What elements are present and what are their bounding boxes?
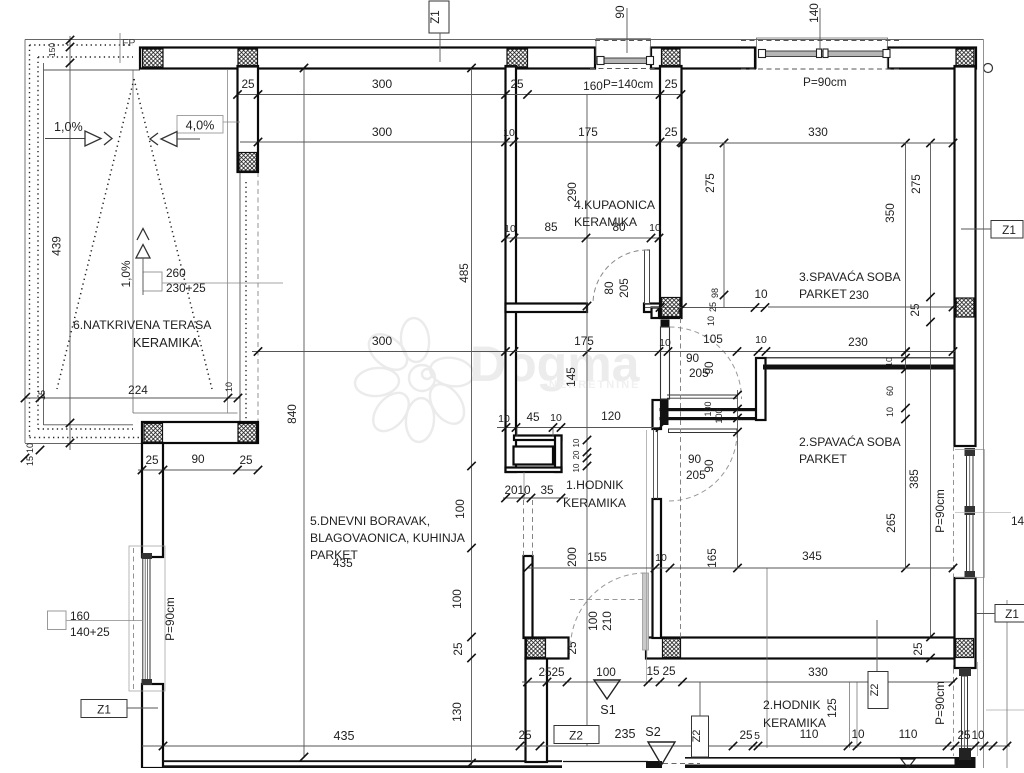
svg-text:90: 90	[688, 452, 702, 466]
entry wall left	[526, 638, 569, 659]
roof overhang line	[25, 39, 984, 41]
dimension ticks	[901, 139, 909, 147]
window W1 dashed top	[595, 40, 651, 42]
svg-text:300: 300	[372, 125, 393, 139]
symbol box terrace	[143, 272, 162, 291]
hatch entry wall mid	[663, 639, 681, 658]
dim extension bedroom2 west	[766, 568, 768, 748]
svg-text:25: 25	[708, 302, 718, 312]
terrace outer edge left	[24, 40, 26, 444]
window W5 top block	[959, 668, 971, 676]
niche top bar	[514, 436, 562, 441]
svg-text:1,0%: 1,0%	[54, 120, 83, 134]
svg-text:2.SPAVAĆA SOBA: 2.SPAVAĆA SOBA	[799, 434, 901, 449]
door bedroom2 swing arc	[669, 433, 738, 502]
svg-text:P=90cm: P=90cm	[933, 681, 947, 725]
dimension ticks	[300, 64, 308, 72]
svg-text:85: 85	[544, 220, 558, 234]
label box Z1 right	[991, 221, 1023, 239]
svg-text:200: 200	[565, 547, 579, 567]
door entry leaf	[643, 573, 649, 650]
svg-text:Z1: Z1	[1005, 607, 1019, 621]
svg-text:435: 435	[333, 729, 354, 743]
dimension ticks	[159, 742, 167, 750]
svg-text:PARKET: PARKET	[799, 287, 847, 301]
niche slot edge 2	[552, 428, 554, 436]
wardrobe front lines	[667, 394, 738, 396]
svg-text:KERAMIKA: KERAMIKA	[133, 335, 200, 350]
dim line 10/175/25	[240, 141, 682, 143]
svg-text:4,0%: 4,0%	[186, 119, 215, 133]
dim extension bedroom 350/265	[905, 143, 907, 568]
dim line 25/25//15/25/330	[522, 681, 955, 683]
svg-text:25: 25	[565, 641, 579, 655]
svg-text:15: 15	[37, 390, 47, 400]
hatch west corner left	[144, 424, 163, 443]
dim line terrace 224	[25, 397, 240, 399]
svg-text:125: 125	[825, 698, 839, 718]
svg-text:10: 10	[25, 443, 35, 453]
dim line niche 10/45/10/120	[497, 427, 660, 429]
svg-text:235: 235	[614, 727, 635, 741]
svg-text:10: 10	[572, 463, 581, 472]
slope arrow terrace center	[137, 229, 149, 241]
exterior wall right upper	[955, 66, 976, 446]
dim line 155/10/345	[527, 567, 955, 569]
svg-text:435: 435	[333, 556, 353, 570]
exterior wall top-right	[888, 48, 976, 69]
svg-text:130: 130	[450, 702, 464, 722]
dimension ticks	[656, 303, 664, 311]
exterior wall right middle	[955, 578, 976, 668]
svg-text:150: 150	[47, 43, 57, 57]
svg-text:P=90cm: P=90cm	[803, 75, 847, 89]
svg-text:3.SPAVAĆA SOBA: 3.SPAVAĆA SOBA	[799, 269, 901, 284]
door bedroom3 swing arc	[670, 327, 742, 399]
svg-text:25: 25	[451, 642, 465, 656]
hatch top wall left end	[143, 49, 164, 67]
hatch pillar top	[238, 49, 258, 67]
terrace dotted bottom 1	[30, 437, 143, 439]
svg-text:10: 10	[572, 438, 581, 447]
window W4 handle block	[965, 506, 976, 515]
svg-text:10: 10	[504, 223, 516, 235]
svg-text:100: 100	[596, 665, 616, 679]
watermark logo flower	[354, 317, 476, 443]
label box Z2 hall	[554, 726, 599, 744]
svg-text:105: 105	[703, 332, 723, 346]
entry / bedroom2 south wall	[646, 638, 955, 659]
svg-text:25: 25	[518, 728, 532, 742]
wall living/bathroom	[506, 66, 517, 472]
window W2 centerline	[819, 8, 821, 50]
dimension ticks	[523, 678, 531, 686]
dim extension 485-chain	[471, 68, 473, 765]
wardrobe wall upper	[660, 408, 759, 411]
dim line mid 300/175/10/105/10/230	[252, 351, 955, 353]
slope arrow right 4,0%	[177, 116, 223, 134]
window W5 bottom block	[959, 748, 971, 760]
window W5 dashed	[953, 660, 955, 756]
svg-text:2.HODNIK: 2.HODNIK	[763, 698, 821, 712]
bathroom south wall stub	[644, 304, 660, 313]
window W3 top block	[142, 553, 153, 559]
svg-text:Z1: Z1	[97, 703, 111, 717]
svg-text:1.HODNIK: 1.HODNIK	[566, 478, 624, 492]
svg-text:BLAGOVAONICA, KUHINJA: BLAGOVAONICA, KUHINJA	[310, 531, 466, 545]
projection dashed bedroom wall face	[680, 318, 682, 638]
svg-text:485: 485	[457, 263, 471, 283]
window W3 dashed	[133, 548, 135, 690]
window W1 top P=140	[596, 38, 651, 40]
svg-text:60: 60	[885, 386, 895, 396]
dim extension bedroom 275/385	[930, 143, 932, 637]
dimension ticks	[21, 454, 29, 462]
svg-text:25: 25	[739, 728, 753, 742]
dimension ticks	[66, 36, 74, 44]
bottom wall blob	[646, 761, 662, 768]
window W2 dashed top	[741, 40, 902, 42]
svg-text:6.NATKRIVENA TERASA: 6.NATKRIVENA TERASA	[73, 318, 212, 332]
dimension ticks	[583, 302, 591, 310]
svg-text:10: 10	[550, 412, 562, 424]
exterior wall right bottom piece	[955, 757, 976, 768]
door bedroom3 leaf	[661, 327, 670, 399]
door frame stub bathroom	[661, 320, 670, 328]
svg-text:10: 10	[971, 728, 985, 742]
label box Z1 left	[81, 700, 127, 718]
svg-text:45: 45	[526, 410, 540, 424]
svg-text:90: 90	[702, 361, 716, 375]
exterior boundary right lower	[1006, 600, 1008, 768]
svg-text:25: 25	[538, 665, 552, 679]
svg-text:25: 25	[510, 77, 524, 91]
svg-text:265: 265	[884, 513, 898, 533]
niche bottom bar	[506, 468, 562, 473]
svg-text:300: 300	[372, 334, 393, 348]
svg-text:Z1: Z1	[430, 10, 442, 23]
dim extension wardrobe	[737, 390, 739, 568]
svg-text:25: 25	[241, 77, 255, 91]
svg-text:KERAMIKA: KERAMIKA	[763, 716, 827, 730]
svg-text:100: 100	[450, 589, 464, 609]
svg-text:175: 175	[578, 125, 598, 139]
svg-text:330: 330	[808, 665, 828, 679]
svg-text:140: 140	[1011, 514, 1024, 528]
svg-text:330: 330	[808, 125, 828, 139]
door bedroom2 leaf	[669, 429, 738, 433]
svg-text:385: 385	[907, 469, 921, 489]
svg-text:P=140cm: P=140cm	[603, 77, 653, 91]
terrace inner edge bottom	[44, 424, 134, 426]
hatch entry wall right	[956, 639, 974, 658]
wall kitchen vertical	[526, 658, 548, 762]
lintel dashed entry	[570, 599, 646, 601]
svg-text:25: 25	[551, 665, 565, 679]
svg-text:10: 10	[659, 337, 671, 349]
svg-text:10: 10	[498, 413, 510, 425]
pillar terrace/living	[238, 66, 259, 172]
dim extension corridor 2	[849, 682, 851, 748]
window W4 top block	[965, 448, 976, 456]
terrace edge at house	[227, 70, 229, 413]
svg-text:90: 90	[191, 452, 205, 466]
downpipe circle	[984, 64, 993, 73]
svg-text:120: 120	[601, 409, 621, 423]
wall gap dashed	[663, 763, 700, 765]
window W2 sill dashed	[741, 68, 902, 70]
niche right bar	[555, 436, 562, 473]
svg-text:25: 25	[908, 303, 922, 317]
label box Z2 corridor vertical	[692, 716, 709, 757]
window W4 bottom block	[965, 571, 976, 579]
svg-text:140: 140	[807, 3, 821, 23]
window W3 bottom block	[142, 679, 153, 685]
dim line bedroom3 330	[682, 142, 953, 144]
wall living south-west horizontal	[142, 422, 258, 443]
svg-text:25: 25	[957, 728, 971, 742]
terrace dotted left 2	[37, 57, 39, 429]
svg-text:160: 160	[70, 609, 90, 623]
hatch bathroom wall top	[507, 49, 528, 67]
svg-text:260: 260	[166, 266, 186, 280]
dim line bathroom 10/85/80/10	[505, 237, 660, 239]
exterior wall top-middle	[651, 48, 755, 69]
opening line	[239, 172, 241, 422]
niche extension	[523, 472, 525, 500]
svg-text:Z1: Z1	[1002, 223, 1016, 237]
svg-text:5.DNEVNI BORAVAK,: 5.DNEVNI BORAVAK,	[310, 514, 430, 528]
window W2 top P=90	[756, 37, 888, 39]
window W3 left wall P=90	[129, 546, 165, 691]
projection dashed hall 1	[523, 500, 525, 556]
svg-text:25: 25	[664, 77, 678, 91]
dim line top 25/300/25/160/25	[237, 94, 682, 96]
dimension ticks	[502, 423, 510, 431]
svg-text:25: 25	[239, 453, 253, 467]
svg-text:1,0%: 1,0%	[119, 260, 133, 287]
svg-text:275: 275	[909, 174, 923, 194]
terrace paving edge lower	[133, 412, 238, 414]
bathroom south wall	[506, 304, 588, 313]
svg-text:210: 210	[600, 611, 614, 631]
svg-text:10: 10	[754, 287, 768, 301]
svg-text:KERAMIKA: KERAMIKA	[574, 215, 638, 229]
svg-text:KERAMIKA: KERAMIKA	[563, 496, 627, 510]
svg-text:NEKRETNINE: NEKRETNINE	[549, 379, 641, 391]
svg-text:4.KUPAONICA: 4.KUPAONICA	[574, 198, 656, 212]
wall bedroom3/bedroom2	[763, 365, 955, 370]
dimension ticks	[138, 466, 146, 474]
window W1 dashed bottom	[590, 68, 656, 70]
svg-text:PARKET: PARKET	[799, 452, 847, 466]
exterior wall bottom-left band	[163, 765, 562, 768]
svg-text:100: 100	[453, 499, 467, 519]
dimension ticks	[21, 394, 29, 402]
label box Z2 right vertical	[868, 672, 888, 709]
exterior wall bottom-right	[685, 757, 955, 759]
svg-text:15: 15	[646, 664, 660, 678]
dim line terrace 439	[69, 36, 71, 450]
svg-text:Z2: Z2	[869, 684, 881, 697]
terrace outer edge bottom	[25, 443, 142, 445]
section mark S3 partial	[901, 759, 915, 768]
roof slope dotted triangle	[57, 79, 134, 389]
svg-text:350: 350	[883, 203, 897, 223]
hatch pillar bottom	[239, 153, 257, 172]
door bedroom2 opening jambs	[653, 429, 655, 499]
niche slot edge	[516, 428, 518, 436]
terrace dotted bottom 2	[38, 428, 133, 430]
dim line bottom chain	[142, 745, 1010, 747]
dimension ticks	[678, 139, 686, 147]
opening dashed line	[257, 172, 259, 422]
terrace dotted top 1	[30, 44, 134, 46]
hatch bedroom3 wall top	[662, 49, 681, 67]
dimension ticks	[720, 139, 728, 147]
svg-text:FP: FP	[122, 37, 135, 49]
svg-text:90: 90	[613, 5, 627, 19]
exterior boundary right	[983, 40, 985, 769]
dim extension bedroom3 275	[723, 143, 725, 308]
label box Z1 top	[429, 1, 449, 33]
svg-text:20: 20	[504, 483, 518, 497]
bottom wall edge mid	[563, 761, 648, 763]
leader terrace mark	[162, 282, 283, 284]
svg-text:10: 10	[885, 407, 895, 417]
svg-text:230: 230	[848, 335, 868, 349]
svg-text:10: 10	[517, 483, 531, 497]
svg-text:10: 10	[706, 316, 716, 326]
svg-text:10: 10	[224, 382, 234, 392]
svg-text:140+25: 140+25	[70, 625, 110, 639]
dimension ticks	[254, 138, 262, 146]
projection dashed hall 2	[532, 500, 534, 556]
exterior wall left upper	[142, 443, 163, 557]
svg-text:175: 175	[574, 334, 594, 348]
dimension ticks	[523, 564, 531, 572]
exterior wall bottom-right band	[685, 765, 955, 769]
dim extension 840	[303, 68, 305, 758]
svg-text:Z2: Z2	[569, 729, 583, 743]
terrace paving edge right	[132, 70, 134, 413]
dim line bedroom3 230a	[768, 306, 955, 308]
door bathroom swing arc	[593, 250, 647, 304]
svg-text:10: 10	[649, 222, 661, 234]
wardrobe wall lower	[660, 417, 767, 420]
svg-text:100: 100	[714, 408, 724, 423]
svg-text:205: 205	[617, 278, 631, 298]
hall east wall lower	[653, 499, 662, 638]
svg-text:S2: S2	[645, 725, 660, 739]
dimension ticks	[254, 347, 262, 355]
svg-text:10: 10	[755, 334, 767, 346]
svg-text:224: 224	[128, 383, 148, 397]
dim extension hall	[586, 95, 588, 746]
svg-text:35: 35	[540, 483, 554, 497]
svg-text:160: 160	[583, 79, 603, 93]
svg-text:145: 145	[564, 367, 578, 387]
svg-text:10: 10	[655, 552, 667, 564]
exterior wall bottom-left	[163, 760, 562, 762]
dimension ticks	[926, 139, 934, 147]
hatch right wall top	[956, 49, 974, 67]
door entry swing arc	[571, 573, 646, 648]
svg-text:10: 10	[884, 357, 894, 367]
svg-text:300: 300	[372, 77, 393, 91]
svg-text:P=90cm: P=90cm	[163, 597, 177, 641]
svg-text:840: 840	[285, 404, 299, 424]
exterior wall top-left	[140, 48, 595, 69]
window W4 dashed	[953, 446, 955, 580]
svg-text:P=90cm: P=90cm	[933, 489, 947, 533]
svg-text:100: 100	[586, 611, 600, 631]
hatch entry wall left	[527, 639, 546, 658]
leader window left	[66, 620, 143, 622]
dimension ticks	[501, 494, 509, 502]
svg-text:165: 165	[705, 548, 719, 568]
terrace inner edge left	[43, 63, 45, 425]
dim line niche 20/10/35	[503, 497, 568, 499]
svg-text:230+25: 230+25	[166, 281, 206, 295]
wall bathroom/bedroom3	[660, 66, 682, 318]
svg-text:10: 10	[503, 127, 515, 139]
svg-text:10: 10	[851, 727, 865, 741]
svg-text:25: 25	[911, 642, 925, 656]
hatch right wall mid	[956, 298, 974, 317]
dim line 25/90/25	[138, 469, 258, 471]
svg-text:S1: S1	[600, 703, 615, 717]
hall east wall upper	[653, 400, 662, 429]
terrace dotted top 2	[38, 56, 133, 58]
svg-text:25: 25	[145, 453, 159, 467]
svg-text:20: 20	[572, 450, 581, 459]
hatch west corner right	[238, 424, 257, 443]
svg-text:110: 110	[899, 727, 918, 741]
svg-text:100: 100	[703, 401, 713, 416]
svg-text:5: 5	[754, 730, 760, 742]
svg-text:90: 90	[686, 351, 700, 365]
svg-text:25: 25	[664, 125, 678, 139]
wall bedroom3/bedroom2 thin line	[755, 357, 955, 359]
door frame stub hall	[652, 308, 660, 319]
hatch bathroom wall bottom	[662, 298, 681, 317]
svg-text:25: 25	[662, 664, 676, 678]
svg-text:155: 155	[587, 550, 607, 564]
extension line hall	[646, 430, 648, 681]
terrace dotted left 1	[29, 45, 31, 437]
window W1 centerline	[626, 8, 628, 53]
svg-text:90: 90	[702, 459, 716, 473]
svg-text:345: 345	[802, 549, 822, 563]
svg-text:275: 275	[703, 173, 717, 193]
dimension ticks	[233, 90, 241, 98]
svg-text:439: 439	[50, 236, 64, 256]
door bathroom leaf	[645, 250, 650, 304]
label box Z right bottom	[995, 605, 1024, 623]
svg-text:230: 230	[849, 288, 869, 302]
dimension ticks	[949, 303, 957, 311]
dim extension corridor	[856, 682, 858, 748]
dimension ticks	[467, 64, 475, 72]
terrace inner edge top	[44, 69, 141, 71]
wardrobe west jamb	[660, 399, 669, 425]
svg-text:Z2: Z2	[691, 730, 703, 743]
exterior wall left lower	[142, 684, 163, 768]
svg-text:98: 98	[710, 288, 720, 298]
symbol box window left	[48, 611, 67, 630]
dimension ticks	[501, 234, 509, 242]
